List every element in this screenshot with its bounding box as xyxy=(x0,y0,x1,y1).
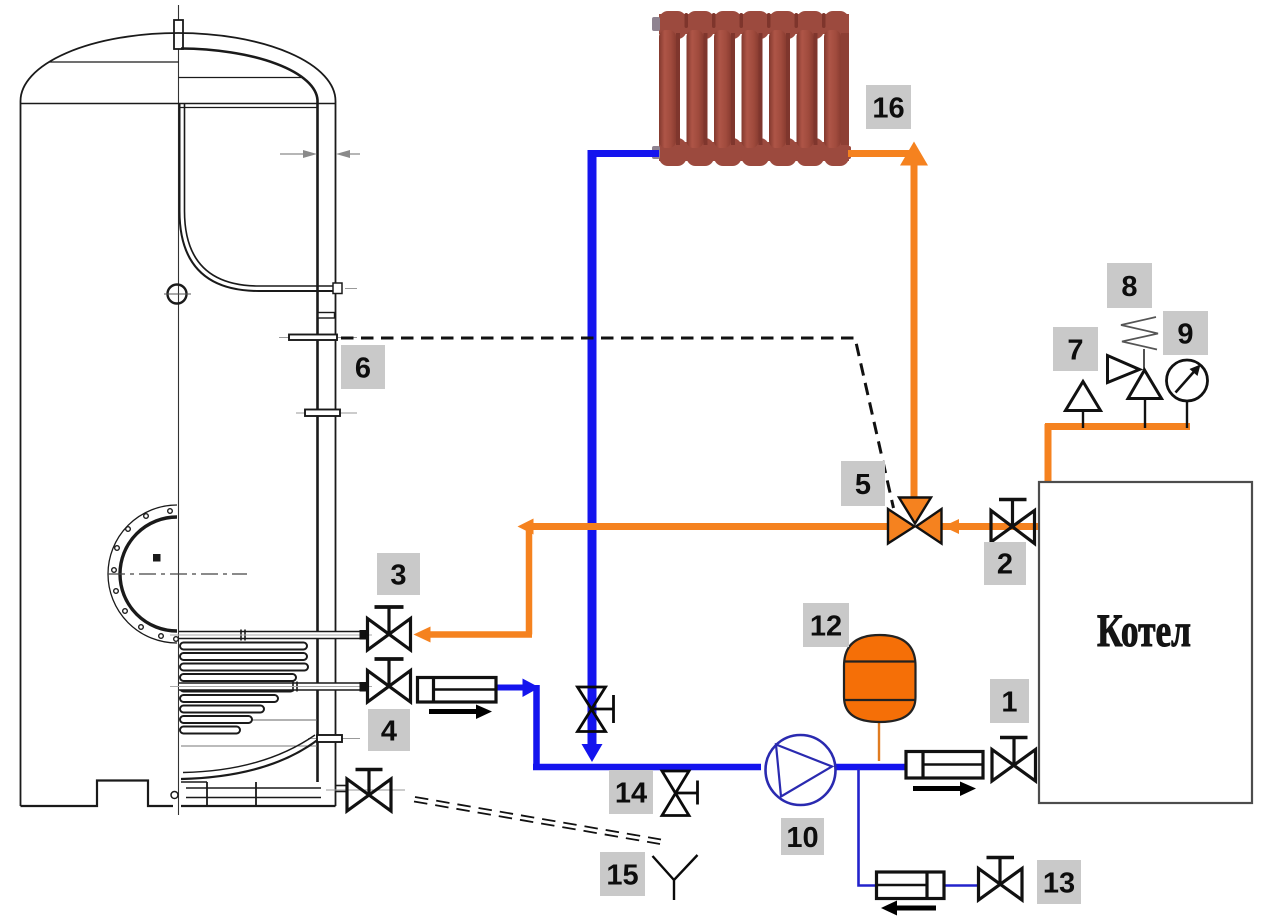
blue flow arrow (right) at valve 4 branch xyxy=(523,679,540,698)
control dashed line from sensor 6 to valve 5 xyxy=(341,338,894,508)
pump 10 xyxy=(766,735,836,805)
manhole centerline dash-dot xyxy=(108,573,247,575)
label 2 xyxy=(984,542,1026,585)
label 12 xyxy=(803,603,849,647)
label 3 xyxy=(377,553,420,595)
pipe: orange drop to valve 3 xyxy=(526,524,533,635)
manhole bolt holes xyxy=(112,509,179,642)
flow arrow below drain check valve (left) xyxy=(881,901,936,916)
dished bottom (section) xyxy=(181,740,318,779)
pipe: blue elbow from valve 4 branch xyxy=(533,685,540,770)
valve 3 xyxy=(360,607,411,650)
valve 1 xyxy=(992,738,1036,782)
svg-text:7: 7 xyxy=(1067,335,1083,367)
label 6 xyxy=(341,345,385,389)
label 9 xyxy=(1163,311,1208,355)
pipe: orange safety group riser xyxy=(1045,424,1052,483)
valve 4 xyxy=(360,659,411,702)
label 15 xyxy=(600,852,645,896)
pipe: orange main valve5 to left xyxy=(531,523,889,530)
flow arrow below check valve (right) xyxy=(429,705,492,720)
small drain curl xyxy=(171,792,178,799)
svg-text:10: 10 xyxy=(786,822,818,854)
label 8 xyxy=(1107,263,1152,308)
radiator top joint shadows xyxy=(685,13,826,28)
coil lower port pipe to valve 4 xyxy=(170,682,372,692)
label 10 xyxy=(781,818,824,855)
tank centerline xyxy=(178,5,180,815)
radiator body (7 sections) xyxy=(659,11,849,166)
inner seam line lower xyxy=(181,719,317,721)
drain check valve (bottom) xyxy=(877,872,945,899)
svg-text:12: 12 xyxy=(810,611,842,643)
pressure gauge 9 xyxy=(1167,360,1208,428)
coil top port pipe to valve 3 xyxy=(170,630,372,641)
label 14 xyxy=(609,770,653,814)
tank drain valve (bottom left) xyxy=(347,770,391,812)
svg-text:16: 16 xyxy=(872,93,904,125)
svg-text:2: 2 xyxy=(997,549,1013,581)
tank bottom edge with foot cutout xyxy=(21,781,174,807)
tank inner vessel wall and dome (section) xyxy=(181,49,318,783)
drain dashed double line to item 15 xyxy=(415,797,661,840)
label 5 xyxy=(841,461,885,506)
tank wall tie xyxy=(318,313,335,319)
manhole flange inner ring xyxy=(120,517,177,631)
blue riser flow arrow (down) xyxy=(582,744,603,762)
tank outer shell xyxy=(21,33,336,806)
bottom support band xyxy=(186,787,321,789)
item 15 drain funnel symbol xyxy=(653,855,698,900)
middle port fitting xyxy=(296,412,357,414)
valve 2 xyxy=(991,500,1035,544)
pipe: blue riser (vertical) xyxy=(588,150,597,745)
radiator section tubes xyxy=(659,30,849,148)
svg-text:15: 15 xyxy=(606,860,638,892)
svg-text:4: 4 xyxy=(381,716,397,748)
check valve after valve 4 xyxy=(418,678,497,703)
safety valve 8 xyxy=(1108,317,1162,428)
tank top nipple xyxy=(174,20,183,49)
svg-text:5: 5 xyxy=(855,469,871,501)
svg-text:8: 8 xyxy=(1121,271,1137,303)
expansion tank 12 xyxy=(844,635,916,722)
svg-text:Котел: Котел xyxy=(1097,605,1191,657)
pipe: thin blue tee down to drain check valve xyxy=(859,769,878,886)
orange flow arrow (left) into valve 3 xyxy=(414,627,431,643)
tank cylinder top seam xyxy=(21,103,335,105)
svg-text:6: 6 xyxy=(355,353,371,385)
pipe: blue bottom main xyxy=(533,764,761,771)
orange flow arrow (left) after boiler xyxy=(943,519,959,534)
valve 13 xyxy=(979,858,1023,901)
radiator end caps xyxy=(652,17,660,31)
label 1 xyxy=(990,679,1029,723)
tank dome seam left xyxy=(49,61,179,63)
pipe: blue return from radiator (horizontal) xyxy=(592,150,659,157)
orange flow arrow (left) at corner xyxy=(518,519,534,535)
pipe: thin blue between check valve and valve 13 xyxy=(944,884,979,887)
thermowell sensor pocket (item 6 port) xyxy=(279,337,357,339)
pipe: orange supply from radiator (horizontal) xyxy=(848,150,911,157)
pipe: thin orange stem of expansion tank xyxy=(878,722,880,761)
riser balancing valve xyxy=(578,687,614,732)
svg-text:1: 1 xyxy=(1001,687,1017,719)
tank dome seam right xyxy=(179,77,302,79)
level fitting circle xyxy=(168,285,187,304)
internal pipe port flange xyxy=(333,283,342,294)
air vent 7 xyxy=(1066,382,1101,429)
label 13 xyxy=(1037,860,1081,904)
label 7 xyxy=(1053,327,1098,371)
3-way mixing valve 5 xyxy=(888,498,942,544)
manhole center mark xyxy=(153,554,161,562)
svg-text:13: 13 xyxy=(1043,868,1075,900)
orange flow arrow (up) at riser top xyxy=(900,142,928,166)
pipe: orange riser to radiator xyxy=(911,163,918,503)
wall thickness dimension arrows xyxy=(280,150,360,158)
heat exchanger coil xyxy=(180,643,308,734)
bottom drain port to drain valve xyxy=(326,789,405,791)
flow arrow below check valve 11 (right) xyxy=(913,782,976,797)
manhole flange outer ring xyxy=(108,505,177,643)
label 16 xyxy=(866,85,911,129)
internal outlet pipe (curved) xyxy=(180,104,342,291)
lower stub port near label 4 xyxy=(308,738,360,740)
svg-text:14: 14 xyxy=(615,778,647,810)
boiler xyxy=(1039,482,1252,803)
pipe: orange boiler to valve 5 xyxy=(941,523,1040,530)
check valve 11 xyxy=(906,752,983,779)
label 4 xyxy=(368,709,410,751)
svg-text:3: 3 xyxy=(390,560,406,592)
valve 14 xyxy=(662,771,698,816)
svg-text:9: 9 xyxy=(1177,319,1193,351)
